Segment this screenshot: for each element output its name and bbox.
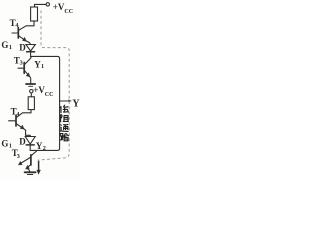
wire D' to Y2 node <box>29 146 31 151</box>
transistor T4 <box>12 28 26 42</box>
svg-text:4: 4 <box>15 22 18 29</box>
node caption 低阻通路 (drawn glyphs) <box>60 105 69 141</box>
wire output Y lead <box>60 100 70 102</box>
svg-text:Y: Y <box>72 99 80 110</box>
resistor R1 <box>31 7 38 21</box>
wire Vcc2 to resistor R2 <box>30 93 32 97</box>
svg-text:+V: +V <box>53 2 65 12</box>
wire T4 emitter to diode D <box>26 41 31 45</box>
svg-text:CC: CC <box>45 92 54 98</box>
svg-text:+V: +V <box>33 85 45 95</box>
svg-text:1: 1 <box>41 63 44 70</box>
wire Vcc to resistor R1 <box>35 4 47 7</box>
svg-text:D: D <box>19 43 26 53</box>
node +Vcc terminal G1 <box>46 3 49 6</box>
wire R2 to T4' collector <box>16 110 31 118</box>
svg-text:4: 4 <box>16 111 19 118</box>
wire R1 to T4 collector <box>19 21 34 30</box>
wire T3' emitter to ground <box>27 168 30 171</box>
wire D to Y1 node <box>30 53 32 57</box>
ground (G1 T3 emitter) <box>26 83 35 85</box>
阻 <box>61 114 69 122</box>
transistor T3 <box>18 57 31 77</box>
svg-text:G: G <box>1 40 8 50</box>
wire T3 emitter to ground <box>29 76 30 83</box>
低 <box>60 105 68 113</box>
resistor R2 <box>28 97 34 110</box>
svg-text:G: G <box>1 138 8 148</box>
svg-text:1: 1 <box>9 44 12 51</box>
transistor T3' (G2 output) <box>18 151 36 169</box>
svg-text:D: D <box>19 137 26 147</box>
svg-text:3: 3 <box>17 153 20 160</box>
node +Vcc terminal G2 <box>30 90 33 93</box>
diode D' (G2) <box>25 137 35 145</box>
svg-text:CC: CC <box>64 9 73 15</box>
transistor T4' (G2) <box>9 115 25 129</box>
wire low-resistance dashed path <box>38 10 70 160</box>
svg-text:2: 2 <box>43 145 46 152</box>
svg-text:3: 3 <box>20 60 23 67</box>
wire Y1 node to output trunk <box>30 56 59 150</box>
wire short-circuit current arrow <box>38 161 40 171</box>
通 <box>60 124 68 131</box>
路 <box>60 133 69 141</box>
ground (G2 T3' emitter) <box>25 171 36 173</box>
diode D (G1) <box>26 45 35 52</box>
wire T4' emitter to diode D' <box>23 129 30 137</box>
